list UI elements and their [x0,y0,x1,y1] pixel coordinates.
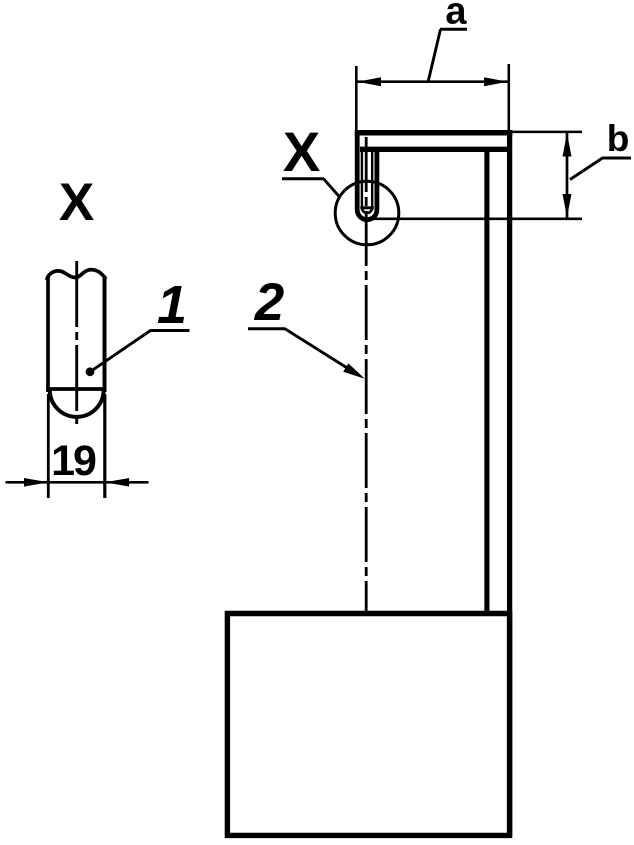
svg-text:X: X [59,173,94,232]
svg-text:a: a [445,0,467,33]
svg-text:b: b [607,118,630,159]
svg-text:2: 2 [254,273,284,332]
svg-text:1: 1 [157,275,187,335]
svg-text:19: 19 [51,437,96,485]
svg-text:X: X [283,120,320,183]
